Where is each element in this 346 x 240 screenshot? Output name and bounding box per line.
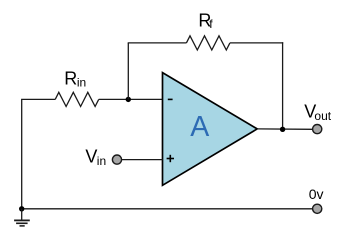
op-amp inverting input "-" mark — [168, 98, 173, 100]
wire: feedback right vertical down to output node — [282, 42, 284, 129]
ground symbol: stub — [21, 209, 23, 221]
resistor R_in zigzag body — [55, 92, 98, 106]
node: junction dot between R_in and feedback branch — [126, 97, 131, 102]
svg-text:0v: 0v — [309, 186, 324, 202]
label V_in — [85, 147, 106, 168]
svg-text:in: in — [77, 75, 86, 89]
wire: 0v rail horizontal — [22, 208, 313, 210]
wire: R_in right lead to op-amp inverting input (through node) — [99, 98, 163, 100]
svg-text:out: out — [314, 109, 331, 123]
wire: R_f right lead to right vertical corner — [230, 42, 283, 44]
label R_f — [198, 10, 213, 31]
wire: op-amp output to V_out terminal — [257, 128, 312, 130]
wire: feedback top horizontal to R_f left lead — [128, 42, 187, 44]
terminal: 0v pin — [313, 204, 322, 213]
label R_in — [64, 69, 86, 90]
node: ground junction dot — [19, 206, 24, 211]
svg-text:V: V — [85, 147, 97, 167]
terminal: V_in pin — [112, 155, 121, 164]
svg-text:R: R — [64, 69, 77, 89]
ground symbol: bars — [14, 220, 30, 226]
label V_out — [304, 102, 331, 123]
svg-text:f: f — [209, 17, 213, 31]
op-amp A triangle body — [163, 73, 258, 186]
svg-text:in: in — [97, 154, 106, 168]
resistor R_f zigzag body — [186, 36, 230, 50]
op-amp non-inverting input "+" mark — [167, 155, 174, 162]
wire: horizontal from corner to R_in left lead — [21, 98, 55, 100]
wire: feedback branch left vertical — [127, 43, 129, 100]
terminal: V_out pin — [313, 125, 322, 134]
svg-text:A: A — [190, 111, 209, 143]
wire: V_in terminal to op-amp non-inverting input — [122, 159, 163, 161]
wire: left vertical from R_in input corner down to 0v rail — [21, 99, 23, 208]
node: output junction dot — [280, 127, 285, 132]
